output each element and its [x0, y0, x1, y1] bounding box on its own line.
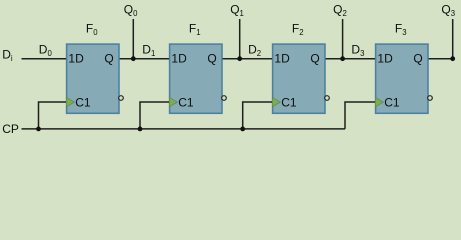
wire CP riser to F0.C1	[39, 102, 67, 129]
wire Q3 vertical tap	[452, 19, 454, 59]
junction node CP tap F2	[240, 126, 245, 131]
F0 inverted output bubble	[119, 96, 124, 101]
wire CP riser to F1.C1	[140, 102, 169, 129]
F1 inverted output bubble	[222, 96, 227, 101]
svg-text:Q: Q	[413, 52, 422, 66]
F0 clock edge triangle	[66, 98, 74, 107]
junction node CP tap F1	[138, 126, 143, 131]
junction node D1/Q0	[131, 56, 136, 61]
svg-text:C1: C1	[178, 95, 194, 109]
flip-flop F3 box	[376, 44, 428, 113]
svg-text:Q: Q	[207, 52, 216, 66]
wire CP riser to F3.C1	[345, 102, 375, 129]
junction node Q3	[450, 56, 455, 61]
svg-text:C1: C1	[384, 95, 400, 109]
junction node CP tap F0	[36, 126, 41, 131]
wire Q1 vertical tap	[239, 19, 241, 59]
F2 inverted output bubble	[325, 96, 330, 101]
svg-text:1D: 1D	[377, 52, 393, 66]
F3 inverted output bubble	[428, 96, 433, 101]
flip-flop F1 box	[170, 44, 222, 113]
svg-text:Q: Q	[310, 52, 319, 66]
wire F1.Q to F2.1D (net D2)	[223, 58, 272, 60]
svg-text:1D: 1D	[68, 52, 84, 66]
wire Di input to F0.1D	[22, 58, 67, 60]
wire F0.Q to F1.1D (net D1)	[120, 58, 169, 60]
wire F3.Q output stub	[429, 58, 453, 60]
flip-flop F2 box	[273, 44, 325, 113]
svg-text:Q: Q	[104, 52, 113, 66]
wire Q2 vertical tap	[342, 19, 344, 59]
F3 clock edge triangle	[375, 98, 383, 107]
flip-flop F0 box	[67, 44, 119, 113]
F1 clock edge triangle	[169, 98, 177, 107]
svg-text:C1: C1	[75, 95, 91, 109]
svg-text:1D: 1D	[171, 52, 187, 66]
svg-text:C1: C1	[281, 95, 297, 109]
svg-text:CP: CP	[2, 122, 19, 136]
F2 clock edge triangle	[272, 98, 280, 107]
wire Q0 vertical tap	[132, 19, 134, 59]
svg-text:1D: 1D	[274, 52, 290, 66]
junction node D3/Q2	[340, 56, 345, 61]
wire CP riser to F2.C1	[243, 102, 272, 129]
wire F2.Q to F3.1D (net D3)	[326, 58, 375, 60]
junction node D2/Q1	[237, 56, 242, 61]
wire CP bus	[22, 128, 346, 130]
